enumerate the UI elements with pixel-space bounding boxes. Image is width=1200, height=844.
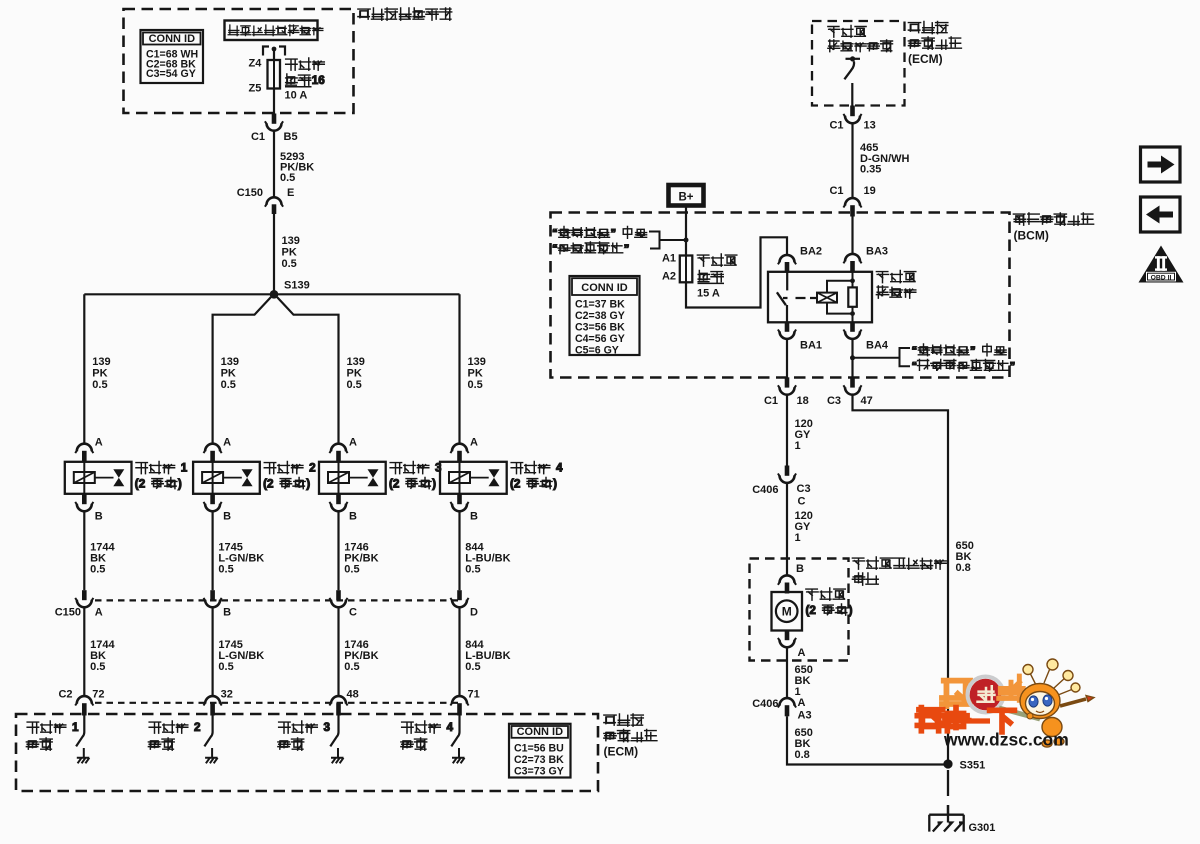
svg-text:18: 18 [797, 395, 809, 407]
svg-text:72: 72 [92, 689, 104, 701]
svg-text:E: E [287, 187, 294, 199]
svg-text:(2: (2 [135, 478, 146, 491]
label: ECM (top right) [908, 22, 947, 34]
svg-text:C3=73 GY: C3=73 GY [514, 765, 564, 777]
svg-text:1: 1 [795, 532, 801, 544]
svg-text:0.5: 0.5 [282, 258, 297, 270]
svg-text:CONN ID: CONN ID [581, 282, 628, 294]
svg-text:BA1: BA1 [800, 340, 822, 352]
svg-text:BA4: BA4 [866, 340, 889, 352]
connector C150 pin A [82, 590, 87, 600]
connector C150 pin C [336, 590, 341, 600]
wire: branch to injector 2 [213, 297, 271, 445]
svg-text:CONN ID: CONN ID [517, 726, 564, 738]
wire: pump A to C406 [786, 647, 788, 698]
svg-text:C3: C3 [797, 483, 811, 495]
connector C150 dashed tie line [95, 599, 460, 601]
connector C1 pin B5 [272, 114, 277, 124]
connector BA3 [845, 254, 860, 262]
svg-text:C3=56 BK: C3=56 BK [575, 322, 625, 334]
svg-text:C4=56 GY: C4=56 GY [575, 333, 625, 345]
svg-text:A: A [798, 697, 806, 709]
svg-text:B: B [223, 511, 231, 523]
label: engine compartment fuse box [358, 8, 452, 20]
svg-text:PK: PK [92, 368, 107, 380]
wire: fuse to connector C1/B5 [273, 89, 275, 115]
svg-text:PK: PK [468, 368, 483, 380]
svg-text:C1: C1 [829, 185, 843, 197]
svg-text:”: ” [1010, 360, 1016, 372]
svg-text:): ) [306, 478, 310, 491]
svg-text:(2: (2 [389, 478, 400, 491]
svg-text:71: 71 [468, 689, 480, 701]
wire: C150 D to ECM [458, 607, 460, 696]
wire: branch to injector 3 [277, 297, 339, 445]
relay actuation dashed link [783, 297, 817, 299]
svg-text:): ) [849, 604, 853, 617]
ECM driver switch Q3 [330, 716, 338, 747]
wire: 18 to C406 [786, 395, 788, 466]
ECM driver switch Q2 [204, 716, 212, 747]
svg-text:“: “ [552, 227, 558, 239]
svg-text:C2: C2 [58, 689, 72, 701]
svg-text:C1=37 BK: C1=37 BK [575, 299, 625, 311]
wire: C150 B to ECM [212, 607, 214, 696]
label: fuel pump relay [876, 271, 915, 283]
label: injector 1 (2 black) [136, 462, 188, 475]
fuel pump motor M1 [772, 592, 803, 631]
svg-text:C1: C1 [829, 120, 843, 132]
CONN ID table (fuse box) [141, 30, 204, 83]
note bracket to B+ wire [649, 232, 686, 249]
svg-text:0.5: 0.5 [90, 661, 105, 673]
connector C150 pin D [457, 590, 462, 600]
svg-text:”: ” [624, 243, 630, 255]
svg-text:B: B [223, 607, 231, 619]
fuse value label: injector fuse 16, 10 A [286, 58, 325, 70]
wire: A3 to splice S351 [787, 716, 944, 764]
fuse 'fuel pump fuse 15 A' A1/A2 [680, 256, 693, 283]
svg-text:(2: (2 [263, 478, 274, 491]
svg-text:C1: C1 [764, 395, 778, 407]
injector INJ4 (solenoid valve) [440, 462, 507, 494]
splice S351 [943, 759, 952, 768]
connector C2 pin 32 [205, 696, 220, 704]
fuel pump and sender assembly box (dashed) [750, 559, 849, 661]
injector INJ1 (solenoid valve) [65, 462, 132, 494]
connector C2 pin 71 [452, 696, 467, 704]
svg-text:0.5: 0.5 [344, 564, 359, 576]
svg-text:B+: B+ [678, 192, 693, 204]
powertrain relay output terminals [263, 47, 285, 56]
ECM injector 1 control label [27, 721, 79, 734]
bus wire from S139 to injector columns [84, 293, 459, 295]
wire: injector 1 B to C150 [83, 511, 85, 590]
svg-text:0.5: 0.5 [347, 379, 362, 391]
svg-text:A1: A1 [662, 253, 676, 265]
svg-text:139: 139 [468, 356, 486, 368]
relay coil parallel wiring [827, 281, 853, 314]
svg-text:B: B [470, 511, 478, 523]
svg-text:): ) [553, 478, 557, 491]
svg-text:A: A [95, 607, 103, 619]
injector 2 pin B connector [210, 494, 215, 504]
B+ battery feed box [669, 185, 704, 206]
svg-text:C2=38 GY: C2=38 GY [575, 310, 625, 322]
ECM fuel pump relay control switch [846, 58, 861, 60]
svg-text:1: 1 [72, 721, 79, 734]
ECM driver switch Q4 [451, 716, 459, 747]
wire: injector 3 B to C150 [337, 511, 339, 590]
svg-text:16: 16 [312, 74, 326, 87]
svg-text:OBD II: OBD II [1151, 275, 1172, 282]
svg-text:0.5: 0.5 [465, 564, 480, 576]
svg-text:): ) [432, 478, 436, 491]
svg-text:BA2: BA2 [800, 246, 822, 258]
svg-text:0.5: 0.5 [465, 661, 480, 673]
svg-text:B: B [349, 511, 357, 523]
svg-text:0.5: 0.5 [280, 172, 295, 184]
injector 1 pin B connector [82, 494, 87, 504]
watermark: dzsc.com logo [942, 681, 970, 707]
svg-text:A: A [798, 647, 806, 659]
wire: 47 to splice S351 [853, 395, 949, 761]
fuel pump relay K (box) [768, 272, 872, 323]
svg-text:PK: PK [282, 247, 297, 259]
wire: BA1 to C1/18 [786, 339, 788, 378]
pump pin B connector [780, 575, 795, 582]
svg-text:1: 1 [181, 462, 188, 475]
node: ground-note junction on BA4 wire [850, 355, 855, 360]
svg-text:”: ” [970, 345, 976, 357]
node: relay top junction [850, 278, 855, 283]
wire: C150 C to ECM [337, 607, 339, 696]
note: ground distribution schematic reference [912, 344, 1007, 357]
wire: BA4 down [851, 339, 853, 378]
svg-text:139: 139 [282, 235, 300, 247]
svg-text:C3=54 GY: C3=54 GY [146, 68, 196, 80]
splice S139 [270, 290, 279, 299]
svg-text:2: 2 [309, 462, 316, 475]
svg-text:139: 139 [347, 356, 365, 368]
svg-text:S139: S139 [284, 280, 310, 292]
node: relay bottom junction [850, 311, 855, 316]
label: fuel pump (2 black) [806, 588, 845, 600]
connector C1 pin 18 [785, 377, 790, 387]
injector 4 pin A connector [452, 444, 467, 452]
svg-text:B: B [95, 511, 103, 523]
svg-text:“: “ [552, 243, 558, 255]
svg-text:19: 19 [864, 185, 876, 197]
label: injector 3 (2 black) [390, 462, 442, 475]
svg-text:C406: C406 [752, 698, 778, 710]
svg-text:C1: C1 [251, 131, 265, 143]
svg-text:A: A [95, 437, 103, 449]
label: injector 2 (2 black) [264, 462, 316, 475]
relay switch contact [786, 272, 788, 291]
CONN ID table (ECM) [509, 724, 571, 778]
svg-text:”: ” [611, 227, 617, 239]
svg-text:A: A [470, 437, 478, 449]
connector C406 pin A/A3 [780, 698, 795, 705]
ECM internal ground (injector 3 driver) [331, 748, 344, 763]
ECM injector 2 control label [149, 721, 201, 734]
engine-compartment fuse box (dashed enclosure) [124, 9, 354, 113]
svg-text:4: 4 [447, 721, 454, 734]
ECM injector 3 control label [279, 721, 331, 734]
wire: fuse A2 to relay BA2 [686, 237, 787, 307]
svg-text:(2: (2 [510, 478, 521, 491]
ECM driver switch Q1 [76, 716, 84, 747]
fuse value label: fuel pump fuse 15 A [697, 254, 736, 266]
svg-text:47: 47 [861, 395, 873, 407]
svg-text:2: 2 [194, 721, 201, 734]
svg-text:13: 13 [864, 120, 876, 132]
svg-text:0.5: 0.5 [218, 661, 233, 673]
svg-text:15 A: 15 A [697, 288, 720, 300]
svg-text:A: A [349, 437, 357, 449]
label: ECM (engine control module) [604, 714, 643, 726]
svg-text:D: D [470, 607, 478, 619]
injector 1 pin A connector [77, 444, 92, 452]
injector INJ2 (solenoid valve) [193, 462, 260, 494]
svg-text:“: “ [912, 360, 918, 372]
wire: C406 to pump [786, 483, 788, 576]
injector 4 pin B connector [457, 494, 462, 504]
wire: 13 to 19 [851, 123, 853, 198]
svg-text:C3: C3 [827, 395, 841, 407]
svg-text:0.35: 0.35 [860, 164, 881, 176]
connector BA2 [780, 255, 795, 262]
BCM module box (dashed) [551, 213, 1010, 378]
connector C2 pin 72 [77, 696, 92, 704]
svg-text:): ) [178, 478, 182, 491]
wire: branch to injector 4 [458, 294, 460, 444]
svg-text:C2=73 BK: C2=73 BK [514, 754, 564, 766]
svg-text:C: C [349, 607, 357, 619]
svg-text:139: 139 [221, 356, 239, 368]
injector 2 pin A connector [205, 444, 220, 452]
injector 3 pin A connector [331, 444, 346, 452]
relay coil (X-box) [817, 293, 837, 303]
svg-text:10 A: 10 A [285, 89, 308, 101]
connector BA4 [850, 322, 855, 332]
svg-text:PK: PK [347, 368, 362, 380]
svg-text:C5=6 GY: C5=6 GY [575, 345, 619, 357]
wire: branch to injector 1 [83, 294, 85, 444]
svg-text:www.dzsc.com: www.dzsc.com [943, 730, 1069, 750]
note bracket (ground distribution) [900, 348, 911, 366]
connector C150 pin B [210, 590, 215, 600]
ECM module box (top right, dashed) [812, 21, 905, 106]
svg-text:139: 139 [92, 356, 110, 368]
svg-text:0.5: 0.5 [221, 379, 236, 391]
CONN ID table (BCM) [570, 276, 640, 355]
note: power distribution schematic reference [552, 227, 647, 240]
svg-text:C: C [798, 496, 806, 508]
label: injector 4 (2 black) [511, 462, 563, 475]
svg-text:A2: A2 [662, 271, 676, 283]
svg-text:0.5: 0.5 [92, 379, 107, 391]
icon: next-page arrow [1141, 147, 1181, 182]
ground G301 symbol [929, 805, 964, 832]
label: BCM (body control module) [1013, 213, 1093, 225]
svg-text:Z5: Z5 [249, 83, 262, 95]
svg-text:0.5: 0.5 [344, 661, 359, 673]
wire: B+ into BCM [685, 207, 687, 255]
wire: C150 A to ECM [83, 607, 85, 696]
connector C2 dashed tie line [95, 702, 460, 704]
wire: injector 2 B to C150 [212, 511, 214, 590]
icon: OBD II triangle [1139, 246, 1184, 283]
svg-text:CONN ID: CONN ID [149, 33, 196, 45]
svg-text:4: 4 [556, 462, 563, 475]
svg-text:A3: A3 [798, 710, 812, 722]
dashed wire: S351 to ground [947, 770, 949, 814]
powertrain relay label box [225, 21, 318, 41]
connector C1 pin 13 [850, 106, 855, 117]
ECM injector 4 control label [402, 721, 454, 734]
injector 3 pin B connector [336, 494, 341, 504]
svg-text:C1=56 BU: C1=56 BU [514, 742, 564, 754]
wire: 19 to BA3 [851, 217, 853, 255]
ECM internal ground (injector 4 driver) [452, 748, 465, 763]
wire: B5 to C150 [273, 131, 275, 198]
label: fuel pump and sender assembly [852, 557, 946, 569]
svg-text:0.8: 0.8 [795, 749, 810, 761]
svg-text:3: 3 [324, 721, 331, 734]
label: fuel pump relay control [828, 26, 866, 38]
svg-text:32: 32 [221, 689, 233, 701]
svg-text:(2: (2 [806, 604, 817, 617]
svg-text:(BCM): (BCM) [1014, 229, 1049, 243]
svg-text:0.5: 0.5 [468, 379, 483, 391]
pump pin A connector [785, 631, 790, 641]
svg-text:0.5: 0.5 [90, 564, 105, 576]
wire: E to splice S139 [273, 214, 275, 291]
connector C3 pin 47 [850, 377, 855, 387]
connector BA1 [785, 322, 790, 332]
svg-text:1: 1 [795, 440, 801, 452]
svg-text:M: M [782, 605, 792, 619]
connector C150 pin E [267, 197, 282, 204]
svg-text:C150: C150 [237, 187, 263, 199]
svg-text:PK: PK [221, 368, 236, 380]
ECM internal ground (injector 2 driver) [205, 748, 218, 763]
svg-text:48: 48 [347, 689, 359, 701]
svg-text:(ECM): (ECM) [604, 745, 639, 759]
svg-text:BA3: BA3 [866, 246, 888, 258]
svg-text:“: “ [912, 345, 918, 357]
ECM internal ground (injector 1 driver) [77, 748, 90, 763]
svg-text:B5: B5 [284, 131, 298, 143]
svg-text:B: B [796, 563, 804, 575]
svg-text:G301: G301 [969, 822, 996, 834]
relay internal resistor [848, 287, 857, 306]
svg-text:Z4: Z4 [249, 58, 263, 70]
connector C406 pin C3/C [785, 466, 790, 476]
svg-text:A: A [223, 437, 231, 449]
fuse F 'injector fuse 16' Z4/Z5 [268, 60, 281, 89]
injector INJ3 (solenoid valve) [319, 462, 386, 494]
connector C1 pin 19 [845, 198, 860, 205]
svg-text:0.5: 0.5 [218, 564, 233, 576]
wire: junction to ground note bracket [853, 357, 900, 359]
svg-text:0.8: 0.8 [956, 562, 971, 574]
svg-text:C150: C150 [55, 607, 81, 619]
connector C2 pin 48 [331, 696, 346, 704]
svg-text:S351: S351 [960, 760, 986, 772]
icon: prev-page arrow [1141, 197, 1181, 232]
wire: injector 4 B to C150 [458, 511, 460, 590]
svg-text:C406: C406 [752, 484, 778, 496]
ECM module box (dashed, bottom left) [16, 714, 598, 791]
svg-text:(ECM): (ECM) [908, 52, 943, 66]
